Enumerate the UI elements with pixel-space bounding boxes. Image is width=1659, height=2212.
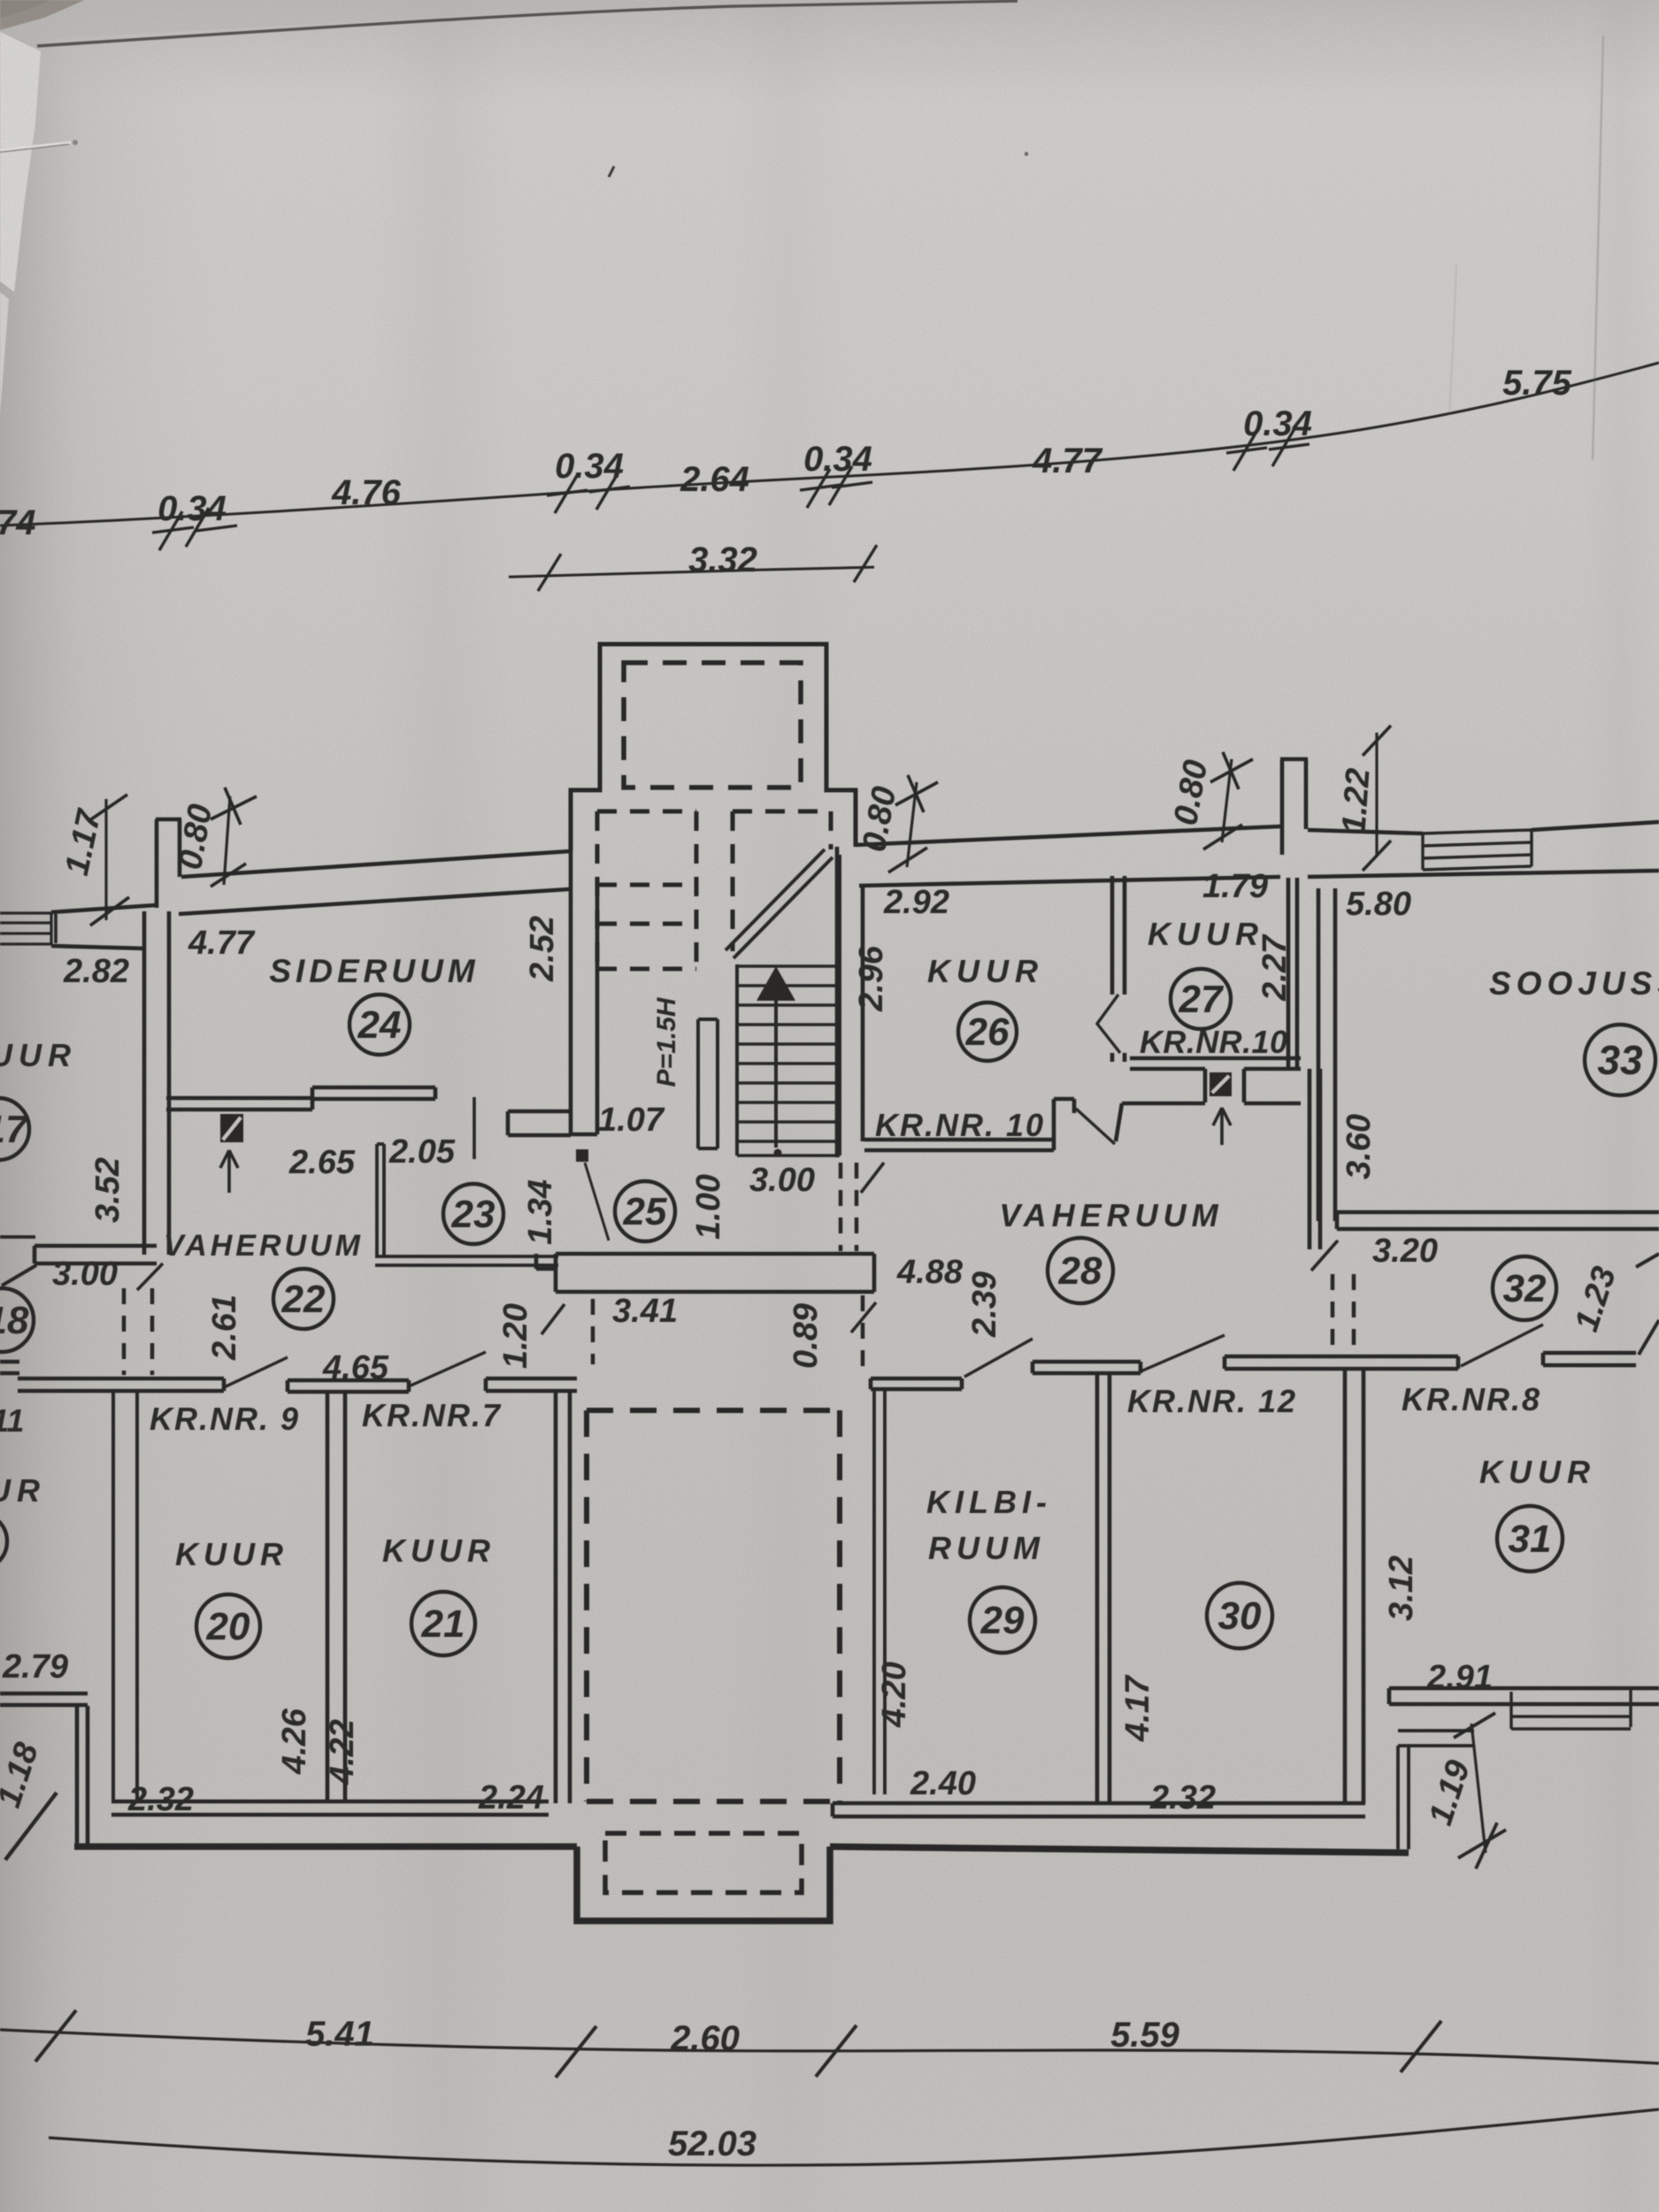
door jamb line 2.05 — [472, 1097, 476, 1159]
left wing top wall inner line — [51, 946, 145, 949]
sheet top edge line — [37, 1, 1018, 46]
room circle 18 (partial) — [0, 1288, 34, 1352]
room 23 walls — [375, 1144, 558, 1265]
top boundary dimension chain line — [0, 363, 1659, 526]
room circle 26 — [958, 1002, 1017, 1061]
north wall outer (right of stub) — [1308, 830, 1423, 833]
room 21 right wall / corridor wall — [556, 1391, 570, 1803]
dim line 0.80 right wing left — [907, 782, 917, 867]
pin — [0, 142, 71, 150]
dim line 1.17 — [104, 799, 107, 920]
door square room 27 — [1210, 1072, 1232, 1096]
wall between rooms 26 and 27 — [1112, 876, 1125, 1062]
wall between rooms 29 and 30 — [1097, 1373, 1110, 1803]
tick X right of stairs 3.00 — [861, 1163, 884, 1193]
north wall inner line / room 24 top — [179, 889, 569, 914]
room circle 33 — [1585, 1025, 1655, 1095]
wall between rooms 30 and 31 — [1345, 1369, 1363, 1803]
tick X left 3.00 — [137, 1263, 163, 1290]
door square room 24 — [220, 1114, 243, 1142]
ticks 1.19 bottom right — [1471, 1724, 1486, 1853]
room 27 right wall — [1288, 878, 1297, 1069]
wall connector left edge — [54, 914, 58, 943]
door leaf room 29 — [964, 1339, 1033, 1377]
right-side fold crease — [1593, 35, 1603, 460]
left exterior wall bottom — [77, 1706, 88, 1846]
rooms 29/30 top wall left low part — [871, 1379, 962, 1389]
room 31 bottom wall — [1389, 1688, 1659, 1704]
rooms 20/21 top wall segments — [18, 1379, 577, 1392]
ticks bottom dimension line — [35, 2010, 1441, 2078]
room 32 corner diagonals — [1636, 1254, 1659, 1355]
table corner top-left — [0, 0, 85, 30]
bottom porch recess — [577, 1847, 830, 1921]
wall fragment left edge — [0, 1235, 35, 1239]
entry arrow room 24 — [220, 1150, 238, 1193]
room 29 left wall — [874, 1389, 885, 1794]
rooms 20/21 bottom wall — [111, 1801, 549, 1815]
pier stub right wing — [1280, 759, 1308, 855]
room 24 left wall — [144, 911, 169, 1255]
room 33 bottom wall — [1337, 1212, 1659, 1229]
north wall outer line (left wing) — [181, 851, 571, 877]
room circle 24 — [349, 995, 410, 1055]
door square room 25 — [576, 1149, 588, 1162]
room circle 31 — [1497, 1506, 1563, 1571]
wall between room 24 and stair tambour — [571, 851, 597, 1134]
north wall outer (east end) — [1532, 822, 1659, 830]
entry arrow room 27 — [1213, 1108, 1231, 1145]
white paper corner at left — [0, 32, 41, 292]
wall piece right of bottom porch — [1398, 1731, 1474, 1849]
darker band above sheet edge — [0, 0, 1009, 41]
big central dashed rectangle — [587, 1410, 840, 1801]
dim line 0.80 right wing right — [1222, 759, 1232, 842]
room circle 17 (partial) — [0, 1098, 29, 1160]
porch dashed rectangle — [624, 663, 801, 787]
small speck top middle — [609, 166, 614, 177]
door leaf room 30 — [1141, 1335, 1225, 1371]
room circle 21 — [411, 1592, 475, 1655]
stair left edge — [735, 964, 739, 1156]
chain tick pair 0.34 #2 — [547, 471, 630, 513]
door leaf room 25 — [585, 1163, 609, 1240]
room circle 20 — [196, 1594, 260, 1658]
room circle 22 — [273, 1269, 334, 1329]
dim line 0.80 left wing — [224, 796, 230, 885]
wall between rooms 20 and 21 — [327, 1392, 345, 1803]
door leaf room 21 — [411, 1352, 486, 1386]
stair up arrow — [757, 966, 795, 1001]
bottom porch dashed rectangle — [605, 1833, 802, 1893]
room circle 23 — [443, 1184, 503, 1244]
wall stub 1.07 — [508, 1111, 571, 1135]
entrance porch outer outline — [571, 644, 856, 851]
stairwell right wall — [837, 847, 863, 1157]
ticks 1.18 bottom left — [5, 1793, 57, 1860]
stair flight diagonal double line — [726, 849, 833, 958]
chain tick pair 0.34 #3 — [800, 466, 872, 508]
dashed line corridor left — [591, 1299, 595, 1364]
stair railing wall — [698, 1019, 718, 1148]
step 2.79 wall — [0, 1694, 88, 1705]
rooms 29/30 bottom wall — [833, 1803, 1365, 1816]
tambour dashed right box — [733, 811, 831, 951]
left wing top wall outer line — [51, 905, 156, 912]
central thick wall band below stairs — [536, 1254, 874, 1292]
window in room 31 bottom wall — [1511, 1690, 1631, 1729]
chain tick pair 0.34 #1 — [152, 508, 237, 550]
room circle 28 — [1048, 1238, 1113, 1303]
room 26 bottom wall and door step — [864, 1099, 1074, 1150]
chain tick pair 0.34 #4 — [1226, 427, 1310, 471]
door notch between 26 and 27 — [1097, 995, 1120, 1053]
door leaf room 20 — [224, 1357, 288, 1387]
dashed opening 3.00 left (vaheruum 22) — [124, 1288, 152, 1375]
stair right edge — [838, 855, 841, 1156]
tick X 3.20 — [1311, 1240, 1338, 1271]
room circle 27 — [1171, 969, 1231, 1029]
room 20 left wall — [113, 1391, 137, 1803]
rooms 29/30 top wall segments — [1033, 1353, 1636, 1373]
dimension line 3.32 — [509, 567, 874, 577]
door leaf room 31 — [1461, 1325, 1543, 1366]
stair treads — [737, 966, 840, 1156]
room circle 29 — [970, 1587, 1035, 1653]
tick X corridor 1.20 — [541, 1304, 565, 1334]
total dimension line 52.03 — [49, 2109, 1659, 2165]
pier stub left wing — [156, 819, 181, 908]
north wall outer line (right wing, west part) — [856, 826, 1280, 845]
room circle 30 — [1207, 1583, 1272, 1648]
dashed opening 3.00 below stairs — [841, 1163, 856, 1251]
window in north wall — [1423, 830, 1532, 870]
room 24 bottom wall with step — [166, 1087, 435, 1110]
door leaf room 26 — [1076, 1109, 1115, 1144]
window left edge — [0, 913, 51, 944]
lower wall of vaheruum below door 27 — [1116, 1103, 1301, 1141]
room 27 bottom wall with door notch — [1130, 1058, 1301, 1102]
tick X corridor 0.89 — [851, 1302, 876, 1333]
bottom dimension line (segments) — [0, 2030, 1659, 2063]
north wall inner line (right wing) — [859, 871, 1659, 886]
tambour dashed left box — [597, 811, 696, 969]
bottom exterior wall left part — [74, 1843, 577, 1850]
room 33 left wall — [1318, 888, 1335, 1221]
diagonal wall to neighbour section — [2, 1265, 36, 1286]
room circle 32 — [1493, 1256, 1556, 1320]
room circle 25 — [615, 1181, 675, 1241]
bottom exterior wall right part — [830, 1847, 1409, 1853]
dashed opening 3.20 — [1333, 1274, 1354, 1356]
vaheruum 22 bottom wall — [35, 1246, 157, 1263]
dashed line corridor 0.89 — [861, 1295, 865, 1367]
wall between 27 and 33 continuing down — [1310, 1069, 1320, 1249]
wall start piece at left edge — [0, 1362, 19, 1373]
dim line 1.22 — [1375, 733, 1378, 855]
partial circle left edge — [0, 1513, 7, 1570]
